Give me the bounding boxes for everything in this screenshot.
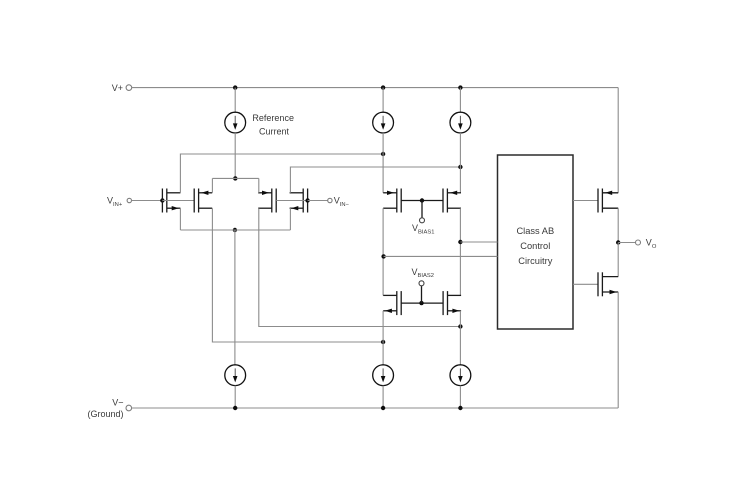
- wire M3 source up to pmos tail: [258, 178, 260, 192]
- wire pmos tail bus: [212, 177, 258, 179]
- svg-text:Current: Current: [259, 127, 290, 137]
- wire V+ rail down to M9 source: [617, 88, 619, 193]
- svg-text:Reference: Reference: [252, 113, 294, 123]
- node nmos tail node: [233, 228, 237, 232]
- node VBIAS2 node: [419, 301, 423, 305]
- wire M4 drain up to cascode B: [290, 167, 460, 193]
- wire M1 source down to nmos tail: [179, 208, 181, 230]
- node cascode A upper tap: [381, 152, 385, 156]
- wire reference source to pmos pair tail: [234, 133, 236, 178]
- current source IREF reference current: [225, 112, 246, 133]
- wire M3-M4 gate link: [276, 200, 307, 202]
- node pmos tail node: [233, 176, 237, 180]
- wire V+ rail: [132, 87, 619, 89]
- wire M10 source down to V- rail: [617, 292, 619, 408]
- node V- rail tap left: [233, 406, 237, 410]
- wire node A to class AB box: [384, 255, 498, 257]
- node lower A tap: [381, 340, 385, 344]
- wire output lead: [618, 242, 635, 244]
- wire nmos tail to sink: [234, 230, 236, 365]
- svg-text:Class AB: Class AB: [516, 226, 554, 236]
- wire sink A to V- rail: [382, 386, 384, 408]
- transistor M10 nmos output: [598, 272, 618, 296]
- wire M6 drain down col B: [459, 208, 461, 295]
- current source I3 top source B: [450, 112, 471, 133]
- svg-text:VIN−: VIN−: [334, 196, 350, 208]
- svg-text:VBIAS1: VBIAS1: [412, 223, 434, 235]
- terminal VBIAS2 terminal: [419, 281, 424, 286]
- node class AB in node B: [458, 240, 462, 244]
- wire node B to class AB box: [460, 241, 497, 243]
- svg-text:V−: V−: [112, 398, 123, 408]
- wire VIN- lead: [308, 200, 328, 202]
- wire class AB to M10 gate: [573, 283, 598, 285]
- wire M1 drain up to cascode A: [180, 154, 383, 193]
- node VIN+ gate node: [160, 198, 164, 202]
- node cascode B upper tap: [458, 165, 462, 169]
- terminal V- terminal: [126, 405, 132, 411]
- current source I4 bottom sink A: [373, 365, 394, 386]
- svg-text:Circuitry: Circuitry: [518, 256, 552, 266]
- node output node: [616, 240, 620, 244]
- wire M8 source down col B: [459, 311, 461, 365]
- wire VBIAS2 stub: [421, 285, 423, 303]
- terminal VBIAS1 terminal: [420, 218, 425, 223]
- wire sink to V- rail: [234, 386, 236, 408]
- wire sink B to V- rail: [459, 386, 461, 408]
- wire nmos tail bus: [180, 229, 290, 231]
- wire VBIAS1 gate bus: [401, 200, 443, 202]
- transistor M4 nmos input -: [290, 189, 308, 213]
- wire VIN+ lead: [132, 200, 163, 202]
- svg-text:VIN+: VIN+: [107, 196, 123, 208]
- class AB control circuitry block U1: [498, 155, 574, 329]
- node V+ rail tap B: [458, 85, 462, 89]
- transistor M6 pmos cascode B: [443, 189, 461, 213]
- transistor M1 nmos input +: [162, 189, 180, 213]
- wire VBIAS1 stub: [421, 201, 423, 219]
- wire class AB to M9 gate: [573, 200, 598, 202]
- transistor M8 nmos cascode B: [443, 291, 461, 315]
- wire M3 drain down to lower B: [259, 208, 461, 326]
- svg-text:VBIAS2: VBIAS2: [412, 267, 434, 279]
- wire M7 source down col A: [382, 311, 384, 365]
- svg-text:VO: VO: [646, 238, 657, 250]
- current source I2 top source A: [373, 112, 394, 133]
- node V+ rail / reference tap: [233, 85, 237, 89]
- transistor M3 pmos input -: [258, 189, 276, 213]
- svg-text:Control: Control: [520, 241, 550, 251]
- svg-text:V+: V+: [112, 83, 123, 93]
- transistor M5 pmos cascode A: [383, 189, 401, 213]
- wire VBIAS2 gate bus: [401, 302, 443, 304]
- transistor M7 nmos cascode A: [383, 291, 401, 315]
- terminal V+ terminal: [126, 85, 132, 91]
- terminal VO terminal: [636, 240, 641, 245]
- node VIN- gate node: [305, 198, 309, 202]
- wire M4 source down to nmos tail: [289, 208, 291, 230]
- wire M1 gate link to M2: [162, 200, 194, 202]
- wire M9 drain to output node: [617, 208, 619, 242]
- svg-text:(Ground): (Ground): [87, 409, 123, 419]
- node lower B tap: [458, 324, 462, 328]
- current source I5 bottom sink B: [450, 365, 471, 386]
- wire V+ to reference source: [234, 88, 236, 113]
- wire M5 drain down col A: [382, 208, 384, 295]
- wire V- rail: [132, 407, 619, 409]
- transistor M2 pmos input +: [194, 189, 212, 213]
- wire source B to M6: [459, 133, 461, 193]
- wire M2 source up to pmos tail: [211, 178, 213, 192]
- terminal VIN- terminal: [328, 198, 332, 202]
- node VBIAS1 node: [420, 198, 424, 202]
- wire source A to M5: [382, 133, 384, 193]
- terminal VIN+ terminal: [127, 198, 131, 202]
- node V- rail tap B: [458, 406, 462, 410]
- wire M2 drain down to lower A: [212, 208, 383, 342]
- current source I1 input tail sink: [225, 365, 246, 386]
- node class AB in node A: [381, 254, 385, 258]
- wire rail to source B: [459, 88, 461, 113]
- node V+ rail tap A: [381, 85, 385, 89]
- wire output node to M10 drain: [617, 243, 619, 277]
- transistor M9 pmos output: [598, 189, 618, 213]
- node V- rail tap A: [381, 406, 385, 410]
- wire rail to source A: [382, 88, 384, 113]
